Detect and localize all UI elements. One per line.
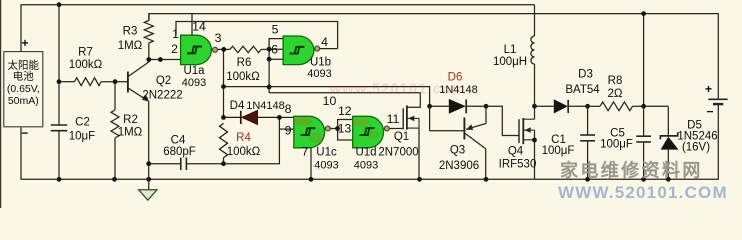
svg-text:8: 8 xyxy=(285,102,292,116)
svg-text:11: 11 xyxy=(387,112,400,126)
transistor Q1 2N7000 xyxy=(402,108,404,129)
node: R6/U1b pin6 junction xyxy=(267,47,272,52)
node: C5 bottom rail junction xyxy=(641,177,646,182)
wire: emitter node to C4 xyxy=(149,163,181,165)
wire: C4 to R4 bottom and up to pins 8/9 xyxy=(186,117,279,163)
wire: R2 to bottom rail xyxy=(114,138,116,179)
op-amp gate U1c (4093 NAND) xyxy=(294,116,325,148)
node: R3/Q2/pin2 junction xyxy=(146,57,151,62)
svg-text:U1b: U1b xyxy=(310,57,331,69)
svg-text:C2: C2 xyxy=(75,117,90,129)
wire: C2 to bottom rail xyxy=(58,131,60,180)
wire: bus line1 U1a-out to D6/Q3 node xyxy=(224,87,430,107)
node: C1 bottom rail junction xyxy=(585,177,590,182)
node: U1c out / U1d in junction xyxy=(335,126,340,131)
wire: U1a pin2 input xyxy=(149,59,181,61)
svg-text:IRF530: IRF530 xyxy=(499,159,537,171)
transistor Q4 IRF530 xyxy=(518,119,520,143)
diode D6 1N4148 xyxy=(449,99,466,114)
node: D5 bottom rail junction xyxy=(666,177,671,182)
node: U1a-out/R4/D4 junction xyxy=(221,115,226,120)
svg-text:3: 3 xyxy=(215,31,222,45)
svg-text:50mA): 50mA) xyxy=(8,95,39,107)
svg-text:10μF: 10μF xyxy=(69,131,95,143)
svg-text:R3: R3 xyxy=(123,26,138,38)
capacitor C1 100uF xyxy=(587,106,589,135)
wire: top rail B (battery + rail) xyxy=(149,14,718,100)
svg-text:7: 7 xyxy=(302,145,309,159)
wire: C2/R7 vertical from rail A xyxy=(58,5,60,125)
capacitor C5 100uF xyxy=(643,106,645,136)
resistor R6 xyxy=(230,46,261,52)
svg-text:Q2: Q2 xyxy=(156,75,171,87)
svg-text:电池: 电池 xyxy=(13,70,34,83)
svg-text:U1a: U1a xyxy=(183,65,205,77)
svg-text:+: + xyxy=(21,36,28,50)
svg-text:5: 5 xyxy=(272,23,279,37)
wire: U1c output to U1d inputs xyxy=(331,128,338,130)
svg-text:1MΩ: 1MΩ xyxy=(118,40,143,52)
wire: U1b pin4 output xyxy=(320,48,338,50)
node: L1 / Q4 drain / D3 junction xyxy=(532,104,537,109)
svg-text:R7: R7 xyxy=(78,47,93,59)
svg-text:1: 1 xyxy=(172,27,179,41)
wire: Q2 emitter down to bottom rail xyxy=(148,101,150,180)
wire: Q2 collector up to pin2 node xyxy=(148,60,150,63)
node: Q2 emitter bottom rail junction xyxy=(146,177,151,182)
svg-text:(16V): (16V) xyxy=(682,142,710,154)
wire: U1a output vertical down to D4/R4 xyxy=(223,49,225,118)
wire: node to D6 anode xyxy=(430,105,449,107)
svg-text:2Ω: 2Ω xyxy=(608,88,623,100)
node: R7/R2/Q2 base xyxy=(113,79,118,84)
wire: D4 anode to pin8 node xyxy=(258,116,280,118)
node: C2/R7 tap xyxy=(57,79,62,84)
diode D3 BAT54 xyxy=(554,99,568,113)
wire: R8 right node up to rail B xyxy=(643,14,645,107)
svg-text:1MΩ: 1MΩ xyxy=(118,127,143,139)
svg-text:WWW.520101.COM: WWW.520101.COM xyxy=(558,183,728,202)
node: D6 cathode / Q3 emitter / Q4 gate junction xyxy=(484,104,489,109)
transistor Q3 2N3906 xyxy=(429,106,431,131)
wire: U1c pin8 input xyxy=(279,116,293,118)
node: C2 bottom rail junction xyxy=(57,177,62,182)
resistor R7 xyxy=(75,78,102,86)
node: R8/C5/D5 junction xyxy=(641,104,646,109)
svg-text:R2: R2 xyxy=(123,114,138,126)
svg-text:−: − xyxy=(706,105,713,119)
node: Q3 collector rail junction xyxy=(484,177,489,182)
node: line1/Q3 base/D6 junction xyxy=(427,104,432,109)
svg-text:12: 12 xyxy=(338,104,352,118)
svg-text:太阳能: 太阳能 xyxy=(8,58,40,71)
wire: U1d input stub (pins 12/13) xyxy=(338,120,353,141)
svg-text:U1c: U1c xyxy=(316,147,337,159)
svg-text:L1: L1 xyxy=(504,44,517,56)
transistor Q2 2N2222 xyxy=(127,72,129,93)
svg-text:100μF: 100μF xyxy=(542,145,575,157)
wire: node to R7 xyxy=(59,81,75,83)
svg-text:R6: R6 xyxy=(237,57,252,69)
node: R2 bottom rail junction xyxy=(112,177,117,182)
inductor L1 100uH xyxy=(534,5,536,36)
svg-text:1N4148: 1N4148 xyxy=(246,100,285,112)
svg-text:4093: 4093 xyxy=(307,68,331,80)
svg-text:2N2222: 2N2222 xyxy=(142,90,182,102)
op-amp gate U1a (4093 NAND) xyxy=(181,35,212,64)
svg-text:4093: 4093 xyxy=(182,77,206,89)
diode D4 1N4148 xyxy=(240,111,242,124)
wire: Q4 drain node to D3 anode xyxy=(535,105,555,107)
node: D3/C1/R8 junction xyxy=(585,104,590,109)
node: C4 / R4 bottom junction xyxy=(221,161,226,166)
node: Q4 source/body junction xyxy=(532,138,537,143)
resistor R2 xyxy=(111,110,119,138)
left scan border xyxy=(0,0,2,208)
resistor R3 xyxy=(144,21,153,44)
wire: bus line2 U1b-input to Q1 drain xyxy=(269,93,420,107)
svg-text:(0.65V,: (0.65V, xyxy=(7,83,40,95)
node: line1 U1b-stub crossing junction xyxy=(267,85,272,90)
svg-text:D3: D3 xyxy=(578,69,593,81)
battery B1 16V xyxy=(708,98,727,100)
svg-text:4093: 4093 xyxy=(314,160,338,172)
svg-text:www.520101.com: www.520101.com xyxy=(329,82,466,98)
svg-text:2N7000: 2N7000 xyxy=(378,147,418,159)
wire: U1b input stub (pins 5/6) xyxy=(269,39,283,93)
ground symbol xyxy=(148,179,150,190)
svg-text:9: 9 xyxy=(285,124,292,138)
capacitor C2 xyxy=(51,124,67,126)
wire: R7 to Q2 base xyxy=(101,81,127,83)
svg-text:Q3: Q3 xyxy=(450,145,465,157)
wire: U1c pin9 input xyxy=(279,128,293,130)
wire: top rail A (solar + rail) xyxy=(21,5,535,52)
node: rail B junction xyxy=(641,11,646,16)
svg-text:100kΩ: 100kΩ xyxy=(226,71,260,83)
wire: node to D4 cathode xyxy=(224,116,241,118)
node: pin2 wire second junction xyxy=(158,57,163,62)
node: pin7 bottom rail junction xyxy=(309,177,314,182)
node: U1a out junction xyxy=(221,47,226,52)
svg-text:13: 13 xyxy=(338,122,352,136)
node: D4/pin8 junction xyxy=(277,115,282,120)
resistor R4 xyxy=(220,123,228,157)
svg-text:2: 2 xyxy=(171,42,178,56)
svg-text:R8: R8 xyxy=(608,75,623,87)
svg-text:4093: 4093 xyxy=(354,160,378,172)
diode D5 1N5246 zener xyxy=(667,106,669,136)
svg-text:6: 6 xyxy=(271,43,278,57)
wire: U1a pin14 from rail B xyxy=(191,14,193,36)
svg-text:100kΩ: 100kΩ xyxy=(69,59,103,71)
svg-text:14: 14 xyxy=(192,20,206,34)
wire: U1a pin3 output xyxy=(218,48,230,50)
svg-text:Q1: Q1 xyxy=(394,131,409,143)
svg-text:C4: C4 xyxy=(171,135,186,147)
wire: U1d output to Q1 gate xyxy=(389,128,403,130)
wire: Q1 source to bottom rail xyxy=(418,128,420,179)
svg-text:100kΩ: 100kΩ xyxy=(227,146,261,158)
node: line1 left junction xyxy=(221,84,226,89)
svg-text:2N3906: 2N3906 xyxy=(439,160,479,172)
node: Q1 source rail junction xyxy=(417,177,422,182)
op-amp gate U1b (4093 NAND) xyxy=(283,36,314,65)
svg-text:4: 4 xyxy=(321,35,328,49)
svg-text:100μF: 100μF xyxy=(600,139,633,151)
node: U1b pin6 lower junction xyxy=(267,57,272,62)
svg-text:Q4: Q4 xyxy=(508,146,524,158)
wire: U1a pin1 feedback from U1b pin4 xyxy=(176,22,338,49)
svg-text:U1d: U1d xyxy=(355,147,376,159)
resistor R8 xyxy=(588,105,600,107)
svg-text:D4: D4 xyxy=(230,100,245,112)
wire: base node to R2 xyxy=(114,82,116,110)
svg-text:680pF: 680pF xyxy=(163,146,196,158)
wire: U1c pin7 to bottom rail xyxy=(310,148,312,180)
solar cell PV1 box xyxy=(4,52,43,127)
wire: bottom ground rail xyxy=(21,104,718,179)
svg-text:BAT54: BAT54 xyxy=(565,84,600,96)
node: rail A / C2 junction xyxy=(57,2,62,7)
capacitor C4 680pF xyxy=(180,158,182,171)
svg-text:+: + xyxy=(705,82,712,96)
op-amp gate U1d (4093 NAND) xyxy=(353,116,384,148)
node: Q2 emitter / C4 junction xyxy=(146,161,151,166)
svg-text:100μH: 100μH xyxy=(493,56,527,68)
svg-text:家电维修资料网: 家电维修资料网 xyxy=(560,160,703,181)
wire: Q4 gate from D6 node xyxy=(486,106,519,135)
svg-text:−: − xyxy=(21,126,28,140)
svg-text:R4: R4 xyxy=(236,132,251,144)
